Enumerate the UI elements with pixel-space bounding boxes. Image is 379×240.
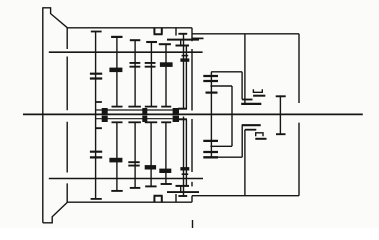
- gear F rim line upper: [185, 45, 187, 108]
- clutch mid bar lower: [255, 138, 266, 140]
- housing bottom step: [43, 202, 68, 223]
- gear F rim line lower: [185, 119, 187, 186]
- F hub bar bottom: [182, 173, 189, 175]
- shaft III: [49, 178, 203, 180]
- gear E top T-bar: [159, 43, 171, 45]
- F cluster connector vertical bottom: [175, 194, 177, 202]
- gear D lower T-bar: [145, 106, 157, 108]
- gear B lower T-bar: [112, 106, 123, 108]
- jaw line h2: [210, 85, 232, 87]
- housing mid wall: [191, 28, 193, 202]
- jaw bar B: [241, 103, 261, 105]
- housing outer wall left: [42, 7, 44, 223]
- clutch gear H upper bars: [203, 76, 218, 81]
- spindle sleeve lower line: [95, 118, 172, 120]
- bearing notch bottom: [154, 196, 163, 202]
- gear X2' vertical: [180, 186, 182, 192]
- housing top step: [43, 8, 68, 28]
- clutch mid bar upper: [253, 95, 265, 97]
- gear A lower double bars: [90, 152, 102, 158]
- gear B top T-bar: [111, 36, 122, 38]
- gear E lower T-bar: [161, 106, 171, 108]
- gear B' thick bar: [109, 158, 122, 163]
- housing bottom line: [67, 201, 191, 203]
- gear A shaft line: [95, 31, 97, 199]
- gear C double bars: [130, 63, 141, 67]
- bearing notch top: [154, 28, 163, 34]
- gear F top T-bar: [178, 33, 187, 35]
- jaw stub A': [242, 124, 261, 126]
- gear D' bottom T-bar: [145, 185, 156, 187]
- gear G top T-bar: [276, 95, 286, 97]
- coupling block A: [102, 108, 108, 122]
- housing top line: [67, 27, 191, 29]
- jaw vertical v232: [231, 86, 233, 146]
- jaw line h2': [210, 145, 232, 147]
- clutch gear H lower bars: [203, 141, 218, 157]
- gear D double bars: [145, 63, 156, 67]
- gear E' bottom T-bar: [161, 183, 172, 185]
- fork bar upper: [178, 108, 187, 110]
- gear C vertical: [134, 40, 136, 106]
- gear D' top T-bar: [145, 121, 157, 123]
- shaft I: [49, 51, 203, 53]
- gear A top T-bar: [91, 31, 102, 33]
- gear C' top T-bar: [128, 121, 141, 123]
- gear C lower T-bar: [128, 106, 141, 108]
- jaw vertical A': [241, 125, 243, 157]
- jaw vertical B: [244, 34, 246, 104]
- gear B' bottom T-bar: [111, 190, 122, 192]
- right box right wall: [298, 34, 300, 196]
- clutch hook lower: [256, 133, 263, 136]
- right box top line: [192, 33, 299, 35]
- F thick bar top: [180, 58, 189, 61]
- gear E vertical: [165, 44, 167, 106]
- gear B' vertical: [116, 122, 118, 191]
- F cluster mid bar top: [176, 45, 190, 47]
- gear D top T-bar: [146, 41, 157, 43]
- gear E' thick bar: [159, 169, 171, 173]
- gear A bottom T-bar: [91, 198, 102, 200]
- gear E' vertical: [165, 122, 167, 184]
- housing inner wall: [66, 28, 68, 202]
- fork bar lower: [178, 118, 187, 120]
- gear E' top T-bar: [161, 121, 171, 123]
- gear F vertical: [183, 33, 185, 197]
- spindle center line: [23, 113, 363, 115]
- gear B' top T-bar: [112, 121, 123, 123]
- clutch gear H vertical: [210, 72, 212, 158]
- clutch hook upper: [253, 89, 262, 92]
- jaw bar B': [245, 129, 256, 131]
- jaw vertical B': [244, 130, 246, 196]
- coupling block C: [142, 108, 147, 122]
- right box bottom line: [192, 195, 299, 197]
- gear C top T-bar: [130, 39, 141, 41]
- coupling block E: [173, 108, 179, 122]
- gear F bottom T-bar: [178, 195, 187, 197]
- gear D vertical: [150, 42, 152, 107]
- gear G bottom T-bar: [276, 133, 286, 135]
- gear B thick bar: [109, 68, 122, 73]
- jaw vertical A: [241, 72, 243, 100]
- gear X2 vertical: [180, 40, 182, 46]
- gear C' vertical: [134, 122, 136, 188]
- spindle sleeve upper line: [95, 109, 172, 111]
- bottom center tick: [192, 220, 194, 228]
- F hub bar top: [182, 55, 189, 57]
- F cluster long bar top: [167, 39, 199, 41]
- jaw line h1': [211, 156, 242, 158]
- gear A center stubs: [96, 102, 102, 128]
- F cluster long bar bottom: [167, 191, 199, 193]
- F thick bar bottom: [180, 167, 189, 170]
- jaw stub A: [242, 99, 252, 101]
- input stub bar right of wall: [193, 37, 204, 39]
- F cluster connector vertical top: [175, 28, 177, 36]
- gear A upper double bars: [90, 74, 102, 79]
- gear C' double bars: [128, 162, 139, 165]
- gear C' bottom T-bar: [130, 187, 141, 189]
- gear D' thick bar: [145, 165, 156, 169]
- gear D' vertical: [150, 122, 152, 186]
- jaw line h1: [211, 71, 242, 73]
- gear E thick bar: [160, 62, 173, 67]
- F cluster mid bar bottom: [176, 185, 190, 187]
- gear B vertical: [116, 37, 118, 107]
- gear G vertical: [279, 95, 281, 135]
